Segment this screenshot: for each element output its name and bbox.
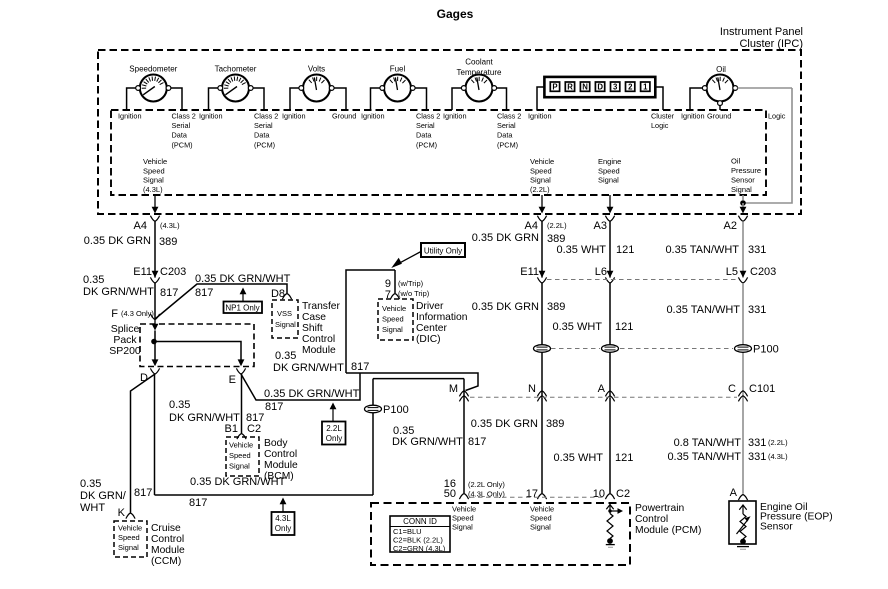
connector E11 C203 (wire1) <box>150 271 159 283</box>
wire PRNDL ignition pin <box>537 87 544 110</box>
connector row P100 dashed line <box>551 348 733 350</box>
svg-text:DK GRN/WHT: DK GRN/WHT <box>392 436 463 448</box>
IPC outer dashed box <box>98 50 801 214</box>
svg-text:L6: L6 <box>595 266 607 278</box>
pin label prndl ignition <box>528 111 552 120</box>
svg-text:Case: Case <box>302 312 326 323</box>
ground (PCM internal) <box>606 538 615 547</box>
wire PRNDL cluster logic pin <box>655 87 663 110</box>
label 0.35 WHT 121 (wire3 bottom) <box>553 452 633 464</box>
svg-text:A: A <box>598 383 606 395</box>
connector C C101 (wire4) <box>728 383 775 401</box>
svg-text:389: 389 <box>547 301 565 313</box>
svg-text:DK GRN/: DK GRN/ <box>80 490 127 502</box>
svg-text:P: P <box>552 83 557 92</box>
module label Body Control Module (BCM) <box>264 438 298 482</box>
sensor box Engine Oil Pressure (EOP) <box>729 501 756 544</box>
wire speedometer pins <box>127 88 182 110</box>
svg-text:10: 10 <box>593 488 605 500</box>
svg-text:(2.2L Only): (2.2L Only) <box>468 480 505 489</box>
svg-text:Module: Module <box>151 545 185 556</box>
pin label coolant class2 <box>497 111 521 149</box>
svg-text:Speed: Speed <box>530 514 552 523</box>
svg-text:SP200: SP200 <box>109 345 141 357</box>
connector L6 C203 (wire3) <box>595 266 615 283</box>
svg-text:Engine: Engine <box>598 157 621 166</box>
svg-text:817: 817 <box>265 401 283 413</box>
svg-text:Center: Center <box>416 323 447 334</box>
svg-text:0.35 WHT: 0.35 WHT <box>552 321 602 333</box>
svg-text:Temperature: Temperature <box>457 68 502 77</box>
connector label A3 <box>594 220 607 232</box>
svg-text:Serial: Serial <box>172 121 191 130</box>
svg-text:Cluster: Cluster <box>651 111 675 120</box>
svg-text:R: R <box>567 83 573 92</box>
svg-text:K: K <box>118 507 126 519</box>
pin label logic <box>768 111 786 120</box>
wire oil logic to IPC logic line <box>737 87 792 89</box>
svg-text:Signal: Signal <box>731 185 752 194</box>
inline connector P100 (wire2) <box>534 345 551 353</box>
callout NP1 Only <box>224 288 263 314</box>
wire 389 C203 to PCM 17 <box>541 283 543 493</box>
svg-text:Class 2: Class 2 <box>416 111 440 120</box>
svg-text:0.35 DK GRN/WHT: 0.35 DK GRN/WHT <box>195 273 291 285</box>
connector label C2 (PCM) <box>616 488 630 500</box>
label 0.35 DK GRN 389 (wire2 top) <box>472 232 566 245</box>
svg-text:E11: E11 <box>520 266 539 278</box>
node splice F <box>111 308 159 320</box>
svg-text:4.3L: 4.3L <box>275 514 291 523</box>
label 0.35 DK GRN/WHT 817 (M-PCM) <box>392 425 486 448</box>
wire 331 A2 to C203 <box>742 221 744 277</box>
label 0.8 TAN/WHT 331 2.2L <box>674 437 789 449</box>
svg-text:0.35: 0.35 <box>83 274 104 286</box>
IPC inner dashed box (cluster logic area) <box>111 110 766 195</box>
svg-text:2: 2 <box>628 83 633 92</box>
svg-text:Ignition: Ignition <box>118 111 142 120</box>
inline connector P100 (wire4) <box>735 345 752 353</box>
label 0.35 DK GRN/WHT 817 (E-M branch upper) <box>273 350 369 374</box>
svg-text:817: 817 <box>160 287 178 299</box>
svg-text:(4.3L): (4.3L) <box>768 452 788 461</box>
svg-text:Signal: Signal <box>229 462 250 471</box>
svg-text:A2: A2 <box>724 220 737 232</box>
svg-text:(PCM): (PCM) <box>172 140 193 149</box>
svg-text:C: C <box>728 383 736 395</box>
svg-text:Speed: Speed <box>382 315 404 324</box>
signal label oil pressure sensor signal <box>731 157 761 195</box>
svg-text:Only: Only <box>326 434 342 443</box>
svg-text:C203: C203 <box>750 266 776 278</box>
svg-text:0.8 TAN/WHT: 0.8 TAN/WHT <box>674 437 742 449</box>
svg-text:817: 817 <box>195 287 213 299</box>
svg-text:Signal: Signal <box>143 176 164 185</box>
svg-text:VSS: VSS <box>277 309 292 318</box>
svg-text:Speedometer: Speedometer <box>129 65 177 74</box>
svg-text:Module: Module <box>302 345 336 356</box>
label 0.35 TAN/WHT 331 (wire4 top) <box>665 244 766 256</box>
label 0.35 TAN/WHT 331 (wire4 mid) <box>666 304 766 316</box>
wire D to K (0.35 DK GRN/WHT 817) <box>131 374 156 513</box>
pin label cluster logic <box>651 111 675 130</box>
gauge U5 Coolant Temperature <box>457 58 502 102</box>
svg-text:Control: Control <box>151 534 184 545</box>
svg-text:0.35 DK GRN: 0.35 DK GRN <box>472 301 539 313</box>
wire oil ground pin <box>719 106 721 111</box>
svg-text:Class 2: Class 2 <box>497 111 521 120</box>
svg-text:(w/o Trip): (w/o Trip) <box>398 289 430 298</box>
svg-text:Ignition: Ignition <box>282 111 306 120</box>
svg-text:Speed: Speed <box>452 514 474 523</box>
svg-text:A: A <box>730 487 738 499</box>
svg-text:Signal: Signal <box>275 320 296 329</box>
callout 4.3L Only <box>272 498 295 536</box>
svg-text:331: 331 <box>748 244 766 256</box>
svg-text:A3: A3 <box>594 220 607 232</box>
CONN ID table <box>390 516 450 553</box>
gauge U1 Speedometer <box>129 65 177 102</box>
svg-text:Data: Data <box>172 131 188 140</box>
wire 389 segment A4 to C203 <box>154 221 156 277</box>
wire 4.3L only horizontal 817 <box>155 413 374 495</box>
svg-text:0.35 TAN/WHT: 0.35 TAN/WHT <box>666 304 740 316</box>
svg-text:50: 50 <box>444 488 456 500</box>
wire volts pins <box>290 88 346 110</box>
gauge U6 Oil <box>702 65 737 106</box>
connector pin 16/50 <box>444 478 506 500</box>
node splice junction SP200 <box>151 339 157 345</box>
svg-text:Sensor: Sensor <box>760 521 793 532</box>
svg-text:Shift: Shift <box>302 323 323 334</box>
svg-text:Sensor: Sensor <box>731 176 755 185</box>
svg-text:(2.2L): (2.2L) <box>530 185 550 194</box>
connector L5 C203 (wire4) <box>726 266 777 283</box>
svg-text:0.35: 0.35 <box>169 399 190 411</box>
wire P100 up to M branch <box>373 379 464 406</box>
signal label vehicle speed signal 2.2L <box>530 157 554 194</box>
PRNDL gear display <box>544 77 655 97</box>
svg-text:(4.3L): (4.3L) <box>160 221 180 230</box>
module label Engine Oil Pressure (EOP) Sensor <box>760 502 833 532</box>
module box Vehicle Speed Signal (BCM) <box>226 437 259 476</box>
label E11 C203 (wire1) <box>133 266 186 278</box>
svg-text:817: 817 <box>351 361 369 373</box>
svg-text:Vehicle: Vehicle <box>382 304 406 313</box>
connector pin M <box>449 383 469 401</box>
svg-text:Speed: Speed <box>598 166 620 175</box>
inline connector P100 (wire3) <box>602 345 619 353</box>
svg-text:Logic: Logic <box>768 111 786 120</box>
wire fuel pins <box>371 88 427 110</box>
wire DIC drop to pins 9/7 <box>394 270 396 293</box>
svg-text:(CCM): (CCM) <box>151 556 181 567</box>
connector pins 9 7 DIC <box>385 278 430 301</box>
pin label coolant ignition <box>443 111 467 120</box>
svg-text:Ignition: Ignition <box>443 111 467 120</box>
svg-text:0.35: 0.35 <box>80 478 101 490</box>
svg-text:C203: C203 <box>160 266 186 278</box>
gauge U3 Volts <box>299 65 334 102</box>
module label Cruise Control Module (CCM) <box>151 523 185 567</box>
svg-text:Speed: Speed <box>229 451 251 460</box>
label 0.35 DK GRN/WHT 817 (D8 branch) <box>195 273 291 299</box>
svg-text:Instrument Panel: Instrument Panel <box>720 26 803 38</box>
wire M to PCM 16/50 <box>463 379 465 493</box>
svg-text:121: 121 <box>616 244 634 256</box>
svg-text:0.35 TAN/WHT: 0.35 TAN/WHT <box>665 244 739 256</box>
svg-text:Driver: Driver <box>416 301 444 312</box>
svg-text:(2.2L): (2.2L) <box>547 221 567 230</box>
connector splice exit E <box>229 368 246 386</box>
svg-text:(2.2L): (2.2L) <box>768 438 788 447</box>
svg-text:Speed: Speed <box>143 166 165 175</box>
label 0.35 DK GRN/WHT 817 (BCM wire) <box>169 399 264 424</box>
connector pin 17 <box>526 488 547 500</box>
module label Driver Information Center (DIC) <box>416 301 468 345</box>
svg-text:Signal: Signal <box>598 176 619 185</box>
wire coolant pins <box>452 88 507 110</box>
svg-text:331: 331 <box>748 304 766 316</box>
wire IPC exit A3 <box>605 195 614 221</box>
pin label fuel ignition <box>361 111 385 120</box>
connector splice exit D <box>140 368 160 384</box>
svg-text:Data: Data <box>254 131 270 140</box>
svg-text:C101: C101 <box>749 383 775 395</box>
label 0.35 TAN/WHT 331 4.3L <box>667 451 788 463</box>
pin label speedometer class2 <box>172 111 196 149</box>
wire 121 A3 to C203 <box>609 221 611 277</box>
svg-text:M: M <box>449 383 458 395</box>
svg-text:Gages: Gages <box>437 7 474 21</box>
svg-text:1: 1 <box>643 83 648 92</box>
signal label vehicle speed signal (pin 17) <box>530 505 554 532</box>
wire IPC exit A4 2.2L <box>537 195 546 221</box>
svg-text:Module (PCM): Module (PCM) <box>635 525 701 536</box>
module box Vehicle Speed Signal (DIC) <box>378 299 413 340</box>
connector row C203 dashed line <box>547 279 737 281</box>
svg-text:Data: Data <box>497 131 513 140</box>
wire splice internal bus <box>154 342 241 360</box>
wire 817 segment C203 to F <box>154 283 156 319</box>
connector label A4 (4.3L) <box>134 220 181 232</box>
svg-text:Class 2: Class 2 <box>172 111 196 120</box>
svg-text:0.35 DK GRN: 0.35 DK GRN <box>472 232 539 244</box>
label 0.35 DK GRN/WHT 817 (4.3L path) <box>189 476 286 509</box>
svg-text:Speed: Speed <box>118 533 140 542</box>
wire splice entry <box>152 320 159 342</box>
module box Powertrain Control Module dashed <box>371 503 630 565</box>
pin label fuel class2 <box>416 111 440 149</box>
connector label A4 (2.2L) <box>525 220 568 232</box>
pin label volts ignition <box>282 111 306 120</box>
svg-text:L5: L5 <box>726 266 738 278</box>
wire tachometer pins <box>209 88 265 110</box>
svg-text:331: 331 <box>748 437 766 449</box>
svg-text:Coolant: Coolant <box>465 58 493 67</box>
svg-text:C2=GRN (4.3L): C2=GRN (4.3L) <box>393 544 446 553</box>
svg-text:817: 817 <box>189 497 207 509</box>
svg-text:N: N <box>582 83 588 92</box>
pin label volts ground <box>332 111 356 120</box>
svg-text:Body: Body <box>264 438 288 449</box>
svg-text:(BCM): (BCM) <box>264 471 294 482</box>
label 0.35 DK GRN 389 (wire2 bottom) <box>471 418 565 430</box>
label 0.35 DK GRN 389 (wire2 mid) <box>472 301 566 313</box>
svg-text:Cruise: Cruise <box>151 523 181 534</box>
label 0.35 WHT 121 (wire3 mid) <box>552 321 633 333</box>
svg-text:17: 17 <box>526 488 538 500</box>
wire D down to 4.3L horizontal <box>154 374 156 495</box>
svg-text:817: 817 <box>468 436 486 448</box>
pin label oil ground <box>707 111 731 120</box>
svg-text:Ground: Ground <box>707 111 731 120</box>
svg-text:389: 389 <box>159 236 177 248</box>
wire 121 C203 to PCM 10 <box>609 283 611 493</box>
svg-text:Serial: Serial <box>254 121 273 130</box>
connector label A2 <box>724 220 737 232</box>
svg-text:Control: Control <box>302 334 335 345</box>
connector A C101 (wire3) <box>598 383 615 401</box>
svg-text:Tachometer: Tachometer <box>215 65 257 74</box>
svg-text:0.35 DK GRN: 0.35 DK GRN <box>471 418 538 430</box>
svg-text:A4: A4 <box>134 220 147 232</box>
svg-text:817: 817 <box>134 487 152 499</box>
gauge U4 Fuel <box>380 65 415 102</box>
label Instrument Panel Cluster (IPC) <box>720 26 803 50</box>
svg-text:(PCM): (PCM) <box>254 140 275 149</box>
pin label oil ignition <box>681 111 705 120</box>
svg-text:Module: Module <box>264 460 298 471</box>
svg-text:Ignition: Ignition <box>199 111 223 120</box>
svg-text:Information: Information <box>416 312 468 323</box>
ground (EOP sensor) <box>737 539 749 550</box>
svg-text:3: 3 <box>613 83 618 92</box>
gauge U2 Tachometer <box>215 65 257 102</box>
wire IPC exit A2 <box>738 195 747 221</box>
svg-text:(DIC): (DIC) <box>416 334 441 345</box>
svg-text:Oil: Oil <box>731 157 741 166</box>
svg-text:Volts: Volts <box>308 65 325 74</box>
module label Transfer Case Shift Control Module <box>302 301 341 356</box>
node junction logic/oil-pressure <box>740 200 746 206</box>
wire DIC stem <box>346 270 395 373</box>
svg-text:Signal: Signal <box>530 176 551 185</box>
svg-text:Pressure: Pressure <box>731 166 761 175</box>
svg-text:(PCM): (PCM) <box>416 140 437 149</box>
splice pack SP200 dashed box <box>140 324 254 367</box>
svg-text:Vehicle: Vehicle <box>118 524 142 533</box>
wire E 2.2L path to M <box>241 373 360 400</box>
svg-text:DK GRN/WHT: DK GRN/WHT <box>83 286 154 298</box>
svg-text:Ignition: Ignition <box>528 111 552 120</box>
svg-text:C2: C2 <box>616 488 630 500</box>
signal label vehicle speed signal 4.3L <box>143 157 167 194</box>
svg-text:Oil: Oil <box>716 65 726 74</box>
svg-text:Utility Only: Utility Only <box>424 247 462 256</box>
svg-text:Serial: Serial <box>416 121 435 130</box>
svg-text:Ignition: Ignition <box>361 111 385 120</box>
module box VSS Signal (transfer case) <box>272 300 298 338</box>
signal label engine speed signal <box>598 157 621 185</box>
wire 331 C203 to C101 <box>742 283 744 494</box>
inline connector P100 (817 wire) <box>365 404 409 416</box>
resistor R2 EOP variable sense element <box>737 505 751 539</box>
svg-text:CONN ID: CONN ID <box>403 517 437 526</box>
svg-text:D: D <box>597 83 603 92</box>
svg-text:C2: C2 <box>247 423 261 435</box>
svg-text:E11: E11 <box>133 266 152 278</box>
svg-text:121: 121 <box>615 321 633 333</box>
svg-text:Ignition: Ignition <box>681 111 705 120</box>
svg-text:Vehicle: Vehicle <box>530 157 554 166</box>
wire oil ignition pin <box>690 88 703 110</box>
connector pin B1 C2 <box>225 423 262 439</box>
svg-text:DK GRN/WHT: DK GRN/WHT <box>273 362 344 374</box>
svg-text:Serial: Serial <box>497 121 516 130</box>
label 0.35 DK GRN 389 (wire1) <box>84 235 178 248</box>
svg-text:Signal: Signal <box>382 325 403 334</box>
svg-text:121: 121 <box>615 452 633 464</box>
connector N C101 (wire2) <box>528 383 547 401</box>
connector E11 C203 (wire2) <box>520 266 546 283</box>
svg-text:Data: Data <box>416 131 432 140</box>
svg-text:Class 2: Class 2 <box>254 111 278 120</box>
svg-text:Signal: Signal <box>452 523 473 532</box>
svg-text:N: N <box>528 383 536 395</box>
connector row PCM C2 dashed line <box>470 496 604 498</box>
svg-text:A4: A4 <box>525 220 538 232</box>
wire E to B1 BCM <box>241 374 243 433</box>
svg-text:P100: P100 <box>383 404 409 416</box>
module box Vehicle Speed Signal (CCM) <box>114 521 147 557</box>
callout Utility Only <box>391 243 465 268</box>
svg-text:0.35 DK GRN/WHT: 0.35 DK GRN/WHT <box>264 388 360 400</box>
svg-text:0.35 TAN/WHT: 0.35 TAN/WHT <box>667 451 741 463</box>
wire IPC exit A4 4.3L <box>150 195 159 221</box>
svg-text:Vehicle: Vehicle <box>530 505 554 514</box>
svg-text:Only: Only <box>275 524 291 533</box>
svg-text:Vehicle: Vehicle <box>229 441 253 450</box>
module label Powertrain Control Module (PCM) <box>635 503 701 536</box>
wire logic line (gray) <box>743 88 792 203</box>
wire 389 A4-2.2L to C203 <box>541 221 543 277</box>
resistor R1 PCM pullup with output arrow <box>606 502 623 539</box>
connector pin D8 <box>271 288 292 300</box>
svg-text:Vehicle: Vehicle <box>452 505 476 514</box>
svg-text:(4.3L): (4.3L) <box>143 185 163 194</box>
svg-text:NP1 Only: NP1 Only <box>225 304 259 313</box>
svg-text:Powertrain: Powertrain <box>635 503 684 514</box>
svg-text:0.35 WHT: 0.35 WHT <box>553 452 603 464</box>
label 0.35 DK GRN/WHT 817 (2.2L path) <box>264 388 360 413</box>
svg-text:0.35: 0.35 <box>275 350 296 362</box>
label Splice Pack SP200 <box>109 323 141 357</box>
svg-text:Signal: Signal <box>530 523 551 532</box>
svg-text:Transfer: Transfer <box>302 301 341 312</box>
title Gages <box>437 7 474 21</box>
wire merged 817 to M <box>346 373 478 391</box>
svg-text:(w/Trip): (w/Trip) <box>398 279 424 288</box>
connector pin 10 <box>593 488 615 500</box>
svg-text:Control: Control <box>264 449 297 460</box>
svg-text:(PCM): (PCM) <box>497 140 518 149</box>
svg-text:Cluster (IPC): Cluster (IPC) <box>739 38 803 50</box>
pin label speedometer ignition <box>118 111 142 120</box>
svg-text:331: 331 <box>748 451 766 463</box>
svg-text:0.35 DK GRN: 0.35 DK GRN <box>84 235 151 247</box>
label 0.35 WHT 121 (wire3 top) <box>556 244 634 256</box>
